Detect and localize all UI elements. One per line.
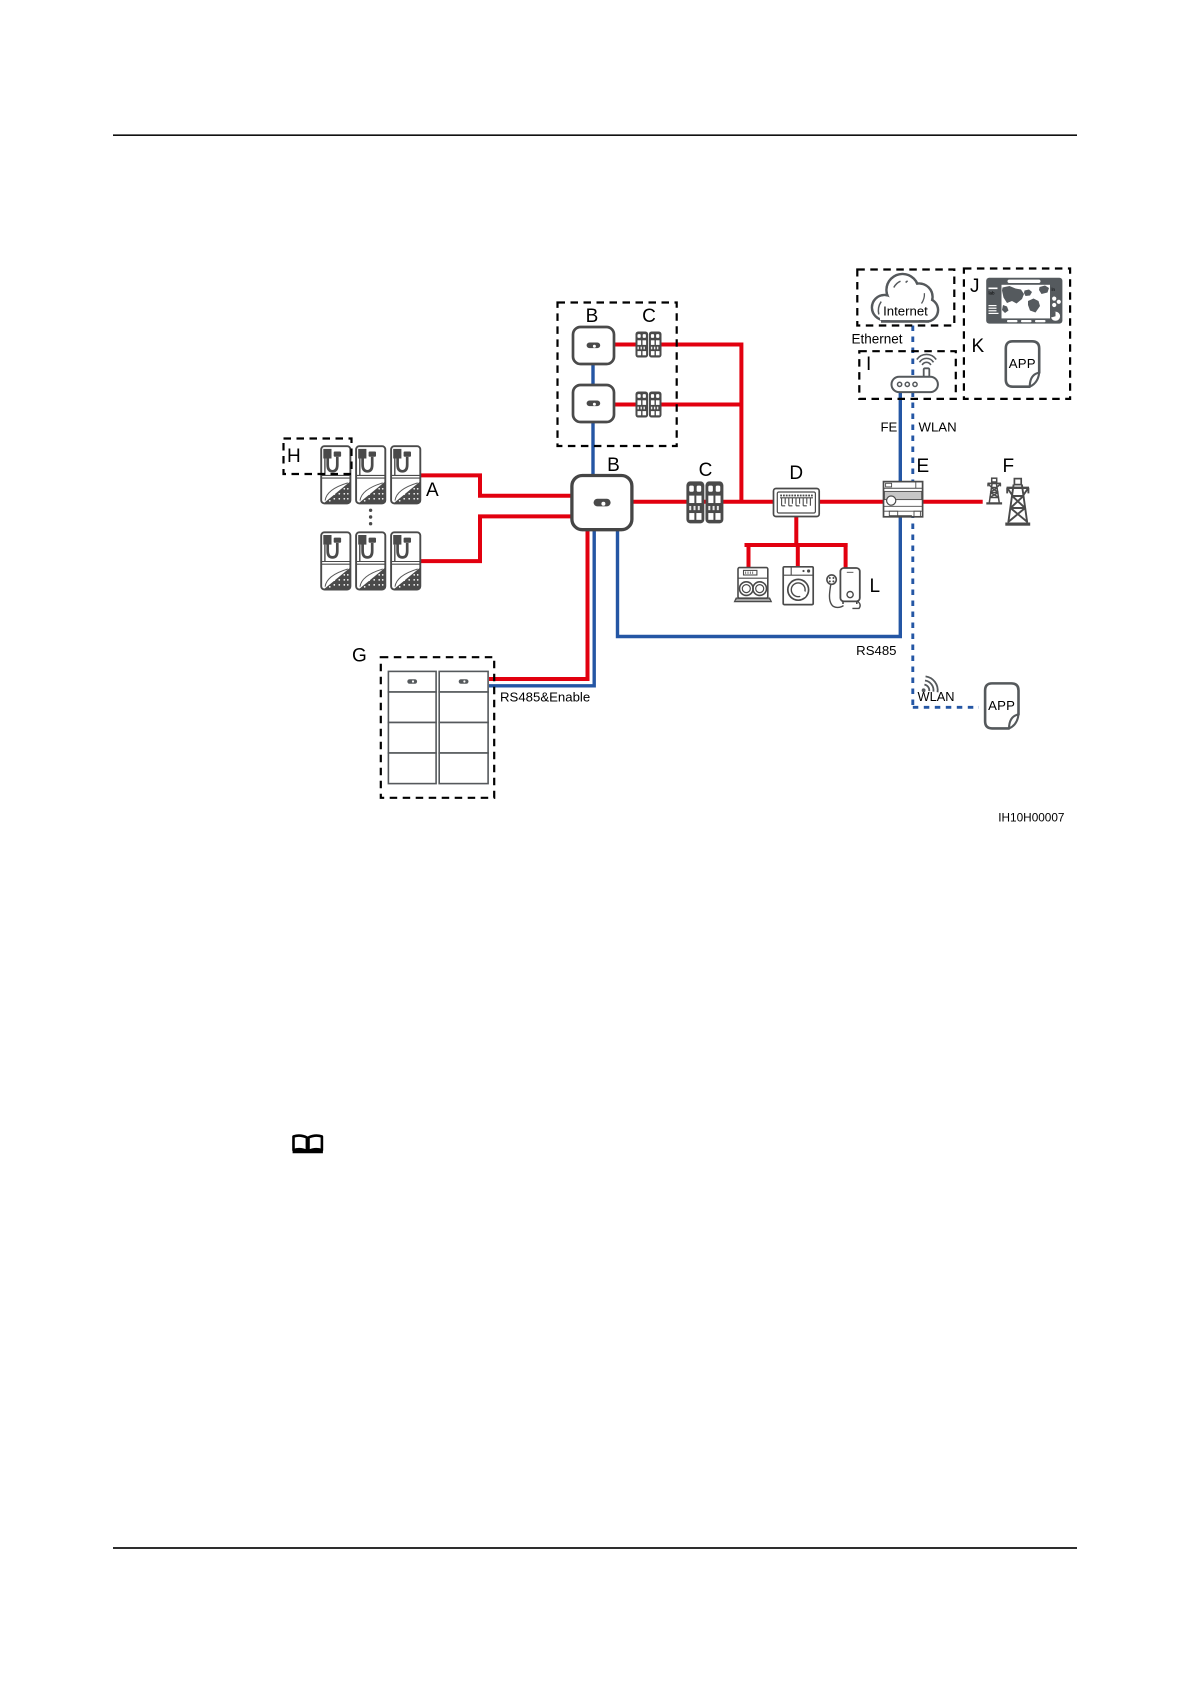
breaker C1: [636, 332, 662, 358]
PV panel 2 row 1: [356, 446, 385, 503]
svg-text:G: G: [352, 646, 367, 667]
wire red loads branch bus: [747, 543, 846, 547]
svg-text:C: C: [642, 306, 656, 327]
cascaded inverter group dashed box: [558, 303, 677, 447]
internet cloud: [869, 274, 939, 325]
power distribution box D: [774, 489, 820, 517]
wire red PV string row2 to inverter B: [421, 516, 574, 561]
load washing machine: [783, 567, 813, 605]
load water heater with shower: [827, 568, 860, 608]
battery dashed box G: [381, 657, 494, 798]
power meter E: [884, 482, 923, 517]
svg-text:Internet: Internet: [883, 304, 928, 319]
svg-text:H: H: [287, 446, 301, 467]
APP icon K: [1006, 341, 1039, 386]
PV panel 1 row 2: [321, 532, 350, 589]
PV panel 1 row 1: [321, 446, 350, 503]
label WLAN top: [919, 420, 957, 435]
svg-text:J: J: [970, 276, 980, 297]
wire red C1 to junction column: [661, 343, 741, 347]
label C (main breaker): [699, 460, 713, 481]
svg-text:FE: FE: [881, 420, 898, 435]
svg-text:Ethernet: Ethernet: [852, 332, 903, 347]
svg-text:lab: lab: [989, 291, 996, 296]
label B (main inverter): [607, 455, 620, 476]
svg-text:K: K: [972, 336, 985, 357]
label RS485: [856, 643, 896, 658]
label E: [917, 456, 930, 477]
svg-text:D: D: [789, 463, 803, 484]
wire blue B2 to main inverter B: [591, 420, 594, 477]
label H: [287, 446, 301, 467]
label J: [970, 276, 980, 297]
bottom rule: [113, 1547, 1077, 1549]
battery stack column 1: [388, 671, 436, 783]
wire red vertical junction column to AC bus: [739, 343, 743, 502]
wire red D down to loads branch: [794, 515, 798, 545]
router: [892, 354, 938, 392]
main breaker C: [686, 481, 723, 523]
wire red PV string row1 to inverter B: [421, 475, 574, 495]
label RS485&Enable: [500, 690, 590, 705]
breaker C2: [636, 392, 662, 418]
management system dashed box J K: [964, 269, 1070, 399]
PV panel 3 row 2: [391, 532, 420, 589]
wire blue B1 to B2 cascade: [591, 362, 594, 387]
svg-text:E: E: [917, 456, 930, 477]
WLAN wifi icon bottom: [921, 676, 939, 694]
transmission tower large: [1005, 479, 1030, 526]
inverter B2: [573, 385, 614, 422]
svg-text:WLAN: WLAN: [919, 420, 957, 435]
wire red B2 to C2: [613, 403, 637, 407]
svg-text:A: A: [426, 480, 439, 501]
ellipsis dots between PV rows: [369, 509, 372, 526]
svg-text:RS485: RS485: [856, 643, 896, 658]
wire blue dashed WLAN vertical: [911, 326, 914, 708]
label B (cascaded inverter): [586, 306, 599, 327]
svg-text:B: B: [586, 306, 599, 327]
label D: [789, 463, 803, 484]
label G: [352, 646, 367, 667]
PV panel 2 row 2: [356, 532, 385, 589]
battery stack column 2: [439, 671, 488, 783]
svg-text:I: I: [866, 354, 871, 375]
top rule: [113, 134, 1077, 136]
label A: [426, 480, 439, 501]
label L: [870, 576, 881, 597]
svg-text:WLAN: WLAN: [918, 689, 955, 704]
svg-text:RS485&Enable: RS485&Enable: [500, 690, 590, 705]
svg-text:ln: ln: [1052, 287, 1056, 292]
label Ethernet: [852, 332, 903, 347]
wire red B1 to C1: [613, 343, 637, 347]
APP icon bottom: [985, 683, 1018, 728]
label WLAN bottom: [918, 689, 955, 704]
wire blue FE router to meter: [899, 390, 902, 483]
transmission tower small: [986, 478, 1002, 503]
label K: [972, 336, 985, 357]
label FE: [881, 420, 898, 435]
svg-text:C: C: [699, 460, 713, 481]
wire red drop to load 1: [747, 543, 751, 568]
main inverter B: [572, 476, 632, 530]
PV panel 3 row 1: [391, 446, 420, 503]
label IH10H00007: [998, 811, 1064, 825]
wire blue inverter to battery: [489, 528, 594, 686]
label C (cascaded breaker): [642, 306, 656, 327]
router dashed box I: [859, 351, 956, 399]
internet cloud dashed box: [857, 270, 954, 326]
wire red inverter to battery: [489, 528, 588, 679]
load cooktop: [735, 568, 772, 602]
wire red C2 to junction column: [661, 403, 741, 407]
management system screen J: [986, 278, 1062, 324]
label F: [1003, 456, 1015, 477]
wire red drop to load 3: [844, 543, 848, 568]
label I: [866, 354, 871, 375]
svg-text:B: B: [607, 455, 620, 476]
PV optimizer dashed box H: [284, 439, 352, 475]
inverter B1: [573, 327, 614, 364]
wire red AC bus inverter to grid: [631, 500, 983, 504]
wire red drop to load 2: [796, 543, 800, 567]
book icon: [293, 1136, 323, 1154]
svg-text:F: F: [1003, 456, 1015, 477]
wire blue RS485 inverter to meter: [618, 515, 901, 637]
svg-text:IH10H00007: IH10H00007: [998, 811, 1064, 825]
svg-text:L: L: [870, 576, 881, 597]
wire blue dashed WLAN horizontal to APP: [913, 706, 979, 709]
